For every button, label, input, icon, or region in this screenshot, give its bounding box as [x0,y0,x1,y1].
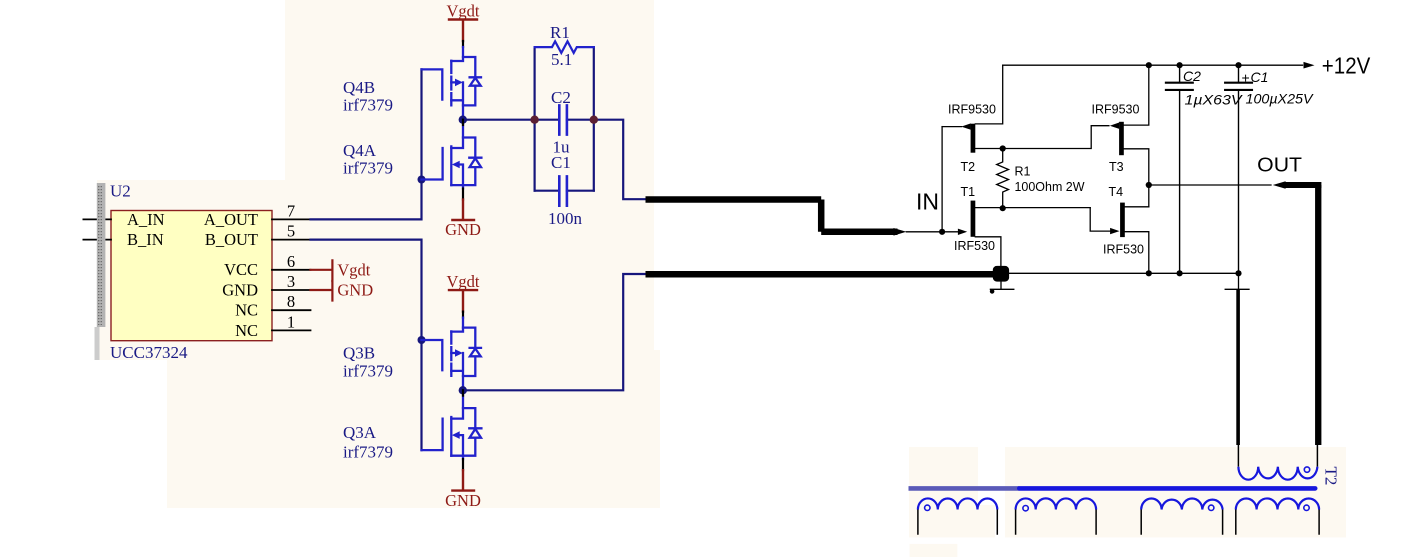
bottom common rail [1009,272,1239,274]
transistor T1 IRF530 [942,185,1090,266]
svg-text:Q3B: Q3B [343,344,375,363]
transformer secondary winding 1 [918,498,997,534]
label Q3A irf7379 [343,423,393,462]
svg-text:T2: T2 [1322,467,1341,486]
junction rail T3 drain [1146,62,1152,68]
svg-text:R1: R1 [550,23,570,42]
svg-text:100Ohm 2W: 100Ohm 2W [1015,180,1085,194]
svg-text:GND: GND [222,280,258,299]
svg-text:C2: C2 [1183,68,1201,84]
wire Q3 output [467,274,646,390]
wire T1 drain to T4 gate [1090,208,1110,232]
pin 1 NC [235,312,310,339]
IC U2 left connector bar [95,183,106,360]
svg-text:6: 6 [287,252,295,271]
transistor T2 IRF9530 [942,65,1003,174]
ground stub below common blob [990,282,1014,294]
+12V rail [1003,53,1371,79]
pin 7 A_OUT [204,201,311,229]
svg-text:Q3A: Q3A [343,423,377,442]
svg-text:IN: IN [916,189,939,215]
ground GND below Q4A [445,185,481,239]
pin A_IN [83,210,164,229]
junction Q4A gate [418,176,426,184]
svg-text:B_IN: B_IN [127,230,164,249]
svg-text:OUT: OUT [1257,154,1302,177]
junction OUT at T3 source [1146,182,1152,188]
transistor T4 IRF530 [1103,185,1149,273]
transformer T2 designator rotated [1322,467,1341,486]
label Q4B irf7379 [343,78,393,115]
svg-text:T3: T3 [1109,160,1124,174]
svg-text:+12V: +12V [1322,53,1371,79]
wire IN vertical [941,127,943,232]
IC U2 body [111,211,272,341]
svg-text:IRF530: IRF530 [954,239,995,253]
transistor Q3A [422,396,482,456]
power port GND at pin 3 [311,281,374,301]
svg-text:8: 8 [287,292,295,311]
svg-text:GND: GND [337,281,373,300]
svg-text:GND: GND [445,491,481,510]
node IN label [916,189,939,215]
label Q3B irf7379 [343,344,393,381]
IC U2 designator label [110,182,131,201]
transistor Q4B [422,47,482,120]
junction T2 source / R1 top [1000,145,1006,151]
svg-text:Vgdt: Vgdt [337,261,370,280]
svg-text:Q4B: Q4B [343,78,375,97]
junction node Q4 output [459,116,467,124]
ground GND below Q3A [445,456,481,510]
svg-text:A_IN: A_IN [127,210,165,229]
pin 6 VCC [224,252,310,279]
resistor R1 5.1 snubber [535,23,594,191]
svg-text:IRF9530: IRF9530 [1092,102,1140,116]
label Q4A irf7379 [343,141,393,178]
svg-text:1: 1 [287,312,295,331]
transformer T2 primary lead left [1236,290,1240,467]
node OUT wire and label [1149,154,1322,446]
transistor T3 IRF9530 [1092,65,1149,207]
svg-text:IRF530: IRF530 [1103,242,1144,256]
resistor R1 100Ohm 2W [997,149,1085,209]
svg-text:R1: R1 [1015,165,1031,179]
power port Vgdt above Q3B [447,272,480,318]
svg-text:Vgdt: Vgdt [447,272,480,291]
junction rail T4 source [1146,270,1152,276]
junction snubber left [530,116,538,124]
power port Vgdt at pin 6 [311,260,371,281]
wire Q4 output to snubber [467,120,646,200]
svg-text:100µX25V: 100µX25V [1246,91,1315,107]
svg-text:7: 7 [287,201,295,220]
transistor Q4A [422,125,482,185]
thick wire B to bridge common [646,266,1010,282]
svg-text:3: 3 [287,272,295,291]
transformer core bar [909,486,1316,491]
capacitor C2 1u [551,88,571,157]
wire T2 source to T3 gate [1003,126,1109,149]
wire pin7 to Q4 gate bus [311,69,422,219]
Q4A drain black pin segment [462,120,464,125]
pin 3 GND [222,272,310,299]
capacitor C2 1uX63V [1166,65,1243,273]
svg-text:Q4A: Q4A [343,141,377,160]
transformer primary lead left tick [1225,273,1249,289]
transformer T2 primary winding [1238,467,1317,480]
svg-text:irf7379: irf7379 [343,443,393,462]
svg-text:U2: U2 [110,182,131,201]
junction rail bottom C1 [1235,270,1241,276]
svg-text:irf7379: irf7379 [343,362,393,381]
capacitor C1 100uX25V polarized [1225,65,1314,273]
junction snubber right [590,116,598,124]
svg-text:1µX63V: 1µX63V [1185,92,1244,108]
svg-text:GND: GND [445,220,481,239]
transformer T2 primary lead right [1315,188,1320,467]
svg-text:IRF9530: IRF9530 [948,102,996,116]
svg-text:A_OUT: A_OUT [204,210,258,229]
Q3A drain black pin segment [462,390,464,395]
svg-text:T4: T4 [1109,185,1124,199]
transformer secondary winding 3 [1141,499,1222,535]
wire pin5 to Q3 gate bus [311,240,422,451]
svg-text:T1: T1 [961,185,976,199]
svg-text:UCC37324: UCC37324 [110,343,188,362]
svg-text:5.1: 5.1 [551,50,572,69]
svg-text:irf7379: irf7379 [343,159,393,178]
svg-text:B_OUT: B_OUT [205,230,258,249]
transistor Q3B [422,318,482,391]
junction T1 drain / R1 bottom [1000,205,1006,211]
svg-text:NC: NC [235,321,258,340]
svg-text:T2: T2 [961,160,976,174]
svg-text:5: 5 [287,222,295,241]
svg-text:C2: C2 [551,88,571,107]
junction rail C1 [1235,62,1241,68]
svg-text:irf7379: irf7379 [343,96,393,115]
transformer secondary winding 2 [1016,498,1097,534]
junction IN node [939,229,945,235]
IC U2 part number label UCC37324 [110,343,188,362]
svg-text:+: + [1242,70,1250,86]
junction rail C2 [1177,62,1183,68]
junction rail bottom C2 [1177,270,1183,276]
svg-text:C1: C1 [1251,69,1269,85]
svg-text:Vgdt: Vgdt [447,2,480,21]
svg-text:VCC: VCC [224,260,258,279]
thick wire A to IN [646,200,943,236]
pin 8 NC [235,292,310,319]
pin B_IN [83,230,163,249]
svg-text:NC: NC [235,301,258,320]
svg-text:C1: C1 [551,153,571,172]
junction Q3B gate [418,336,426,344]
pin 5 B_OUT [205,222,311,250]
capacitor C1 100n [535,153,594,228]
junction node Q3 output [459,386,467,394]
svg-text:100n: 100n [548,209,583,228]
power port Vgdt above Q4B [447,2,480,48]
transformer secondary winding 4 [1236,498,1319,534]
